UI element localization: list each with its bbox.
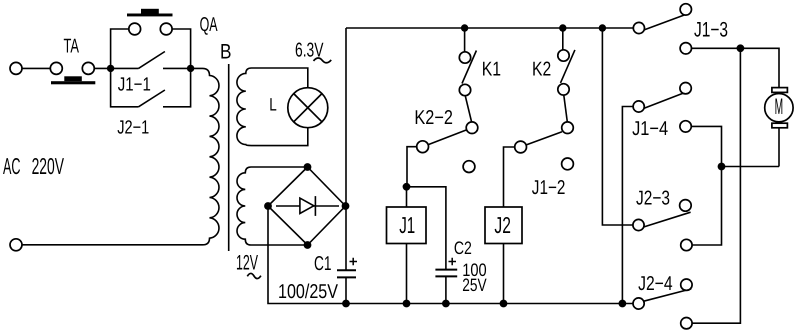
svg-text:J1: J1 xyxy=(399,212,415,238)
svg-text:220V: 220V xyxy=(32,153,65,179)
svg-text:M: M xyxy=(775,94,784,119)
svg-text:C2: C2 xyxy=(454,238,472,258)
svg-text:J2−3: J2−3 xyxy=(636,187,670,209)
svg-text:AC: AC xyxy=(3,153,21,179)
svg-text:6.3V: 6.3V xyxy=(295,39,324,61)
svg-text:K2: K2 xyxy=(532,58,551,80)
svg-text:C1: C1 xyxy=(314,253,332,275)
svg-text:25V: 25V xyxy=(462,275,486,295)
svg-text:12V: 12V xyxy=(236,251,258,274)
svg-text:J2−1: J2−1 xyxy=(117,118,149,139)
svg-text:QA: QA xyxy=(200,14,218,36)
svg-text:J2−4: J2−4 xyxy=(638,273,673,295)
svg-text:J1−1: J1−1 xyxy=(118,75,151,96)
svg-text:J1−2: J1−2 xyxy=(532,177,566,199)
svg-text:J1−3: J1−3 xyxy=(694,18,728,41)
svg-text:K2−2: K2−2 xyxy=(414,107,453,129)
svg-text:TA: TA xyxy=(64,36,80,58)
svg-text:J2: J2 xyxy=(494,212,511,238)
svg-text:K1: K1 xyxy=(482,58,501,80)
svg-text:B: B xyxy=(220,41,232,64)
svg-text:L: L xyxy=(269,95,277,115)
svg-text:J1−4: J1−4 xyxy=(632,118,668,140)
svg-text:100/25V: 100/25V xyxy=(278,281,339,303)
